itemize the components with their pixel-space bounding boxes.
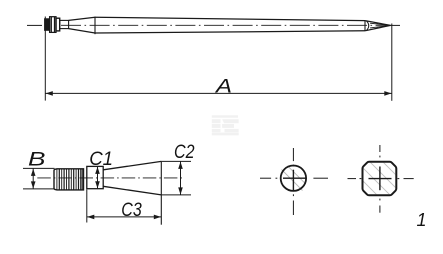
svg-text:C3: C3 [121, 199, 142, 221]
svg-text:C2: C2 [174, 141, 195, 163]
svg-text:B: B [28, 149, 46, 171]
svg-text:C1: C1 [89, 148, 113, 170]
svg-text:A: A [215, 75, 232, 97]
svg-text:1: 1 [417, 210, 427, 230]
